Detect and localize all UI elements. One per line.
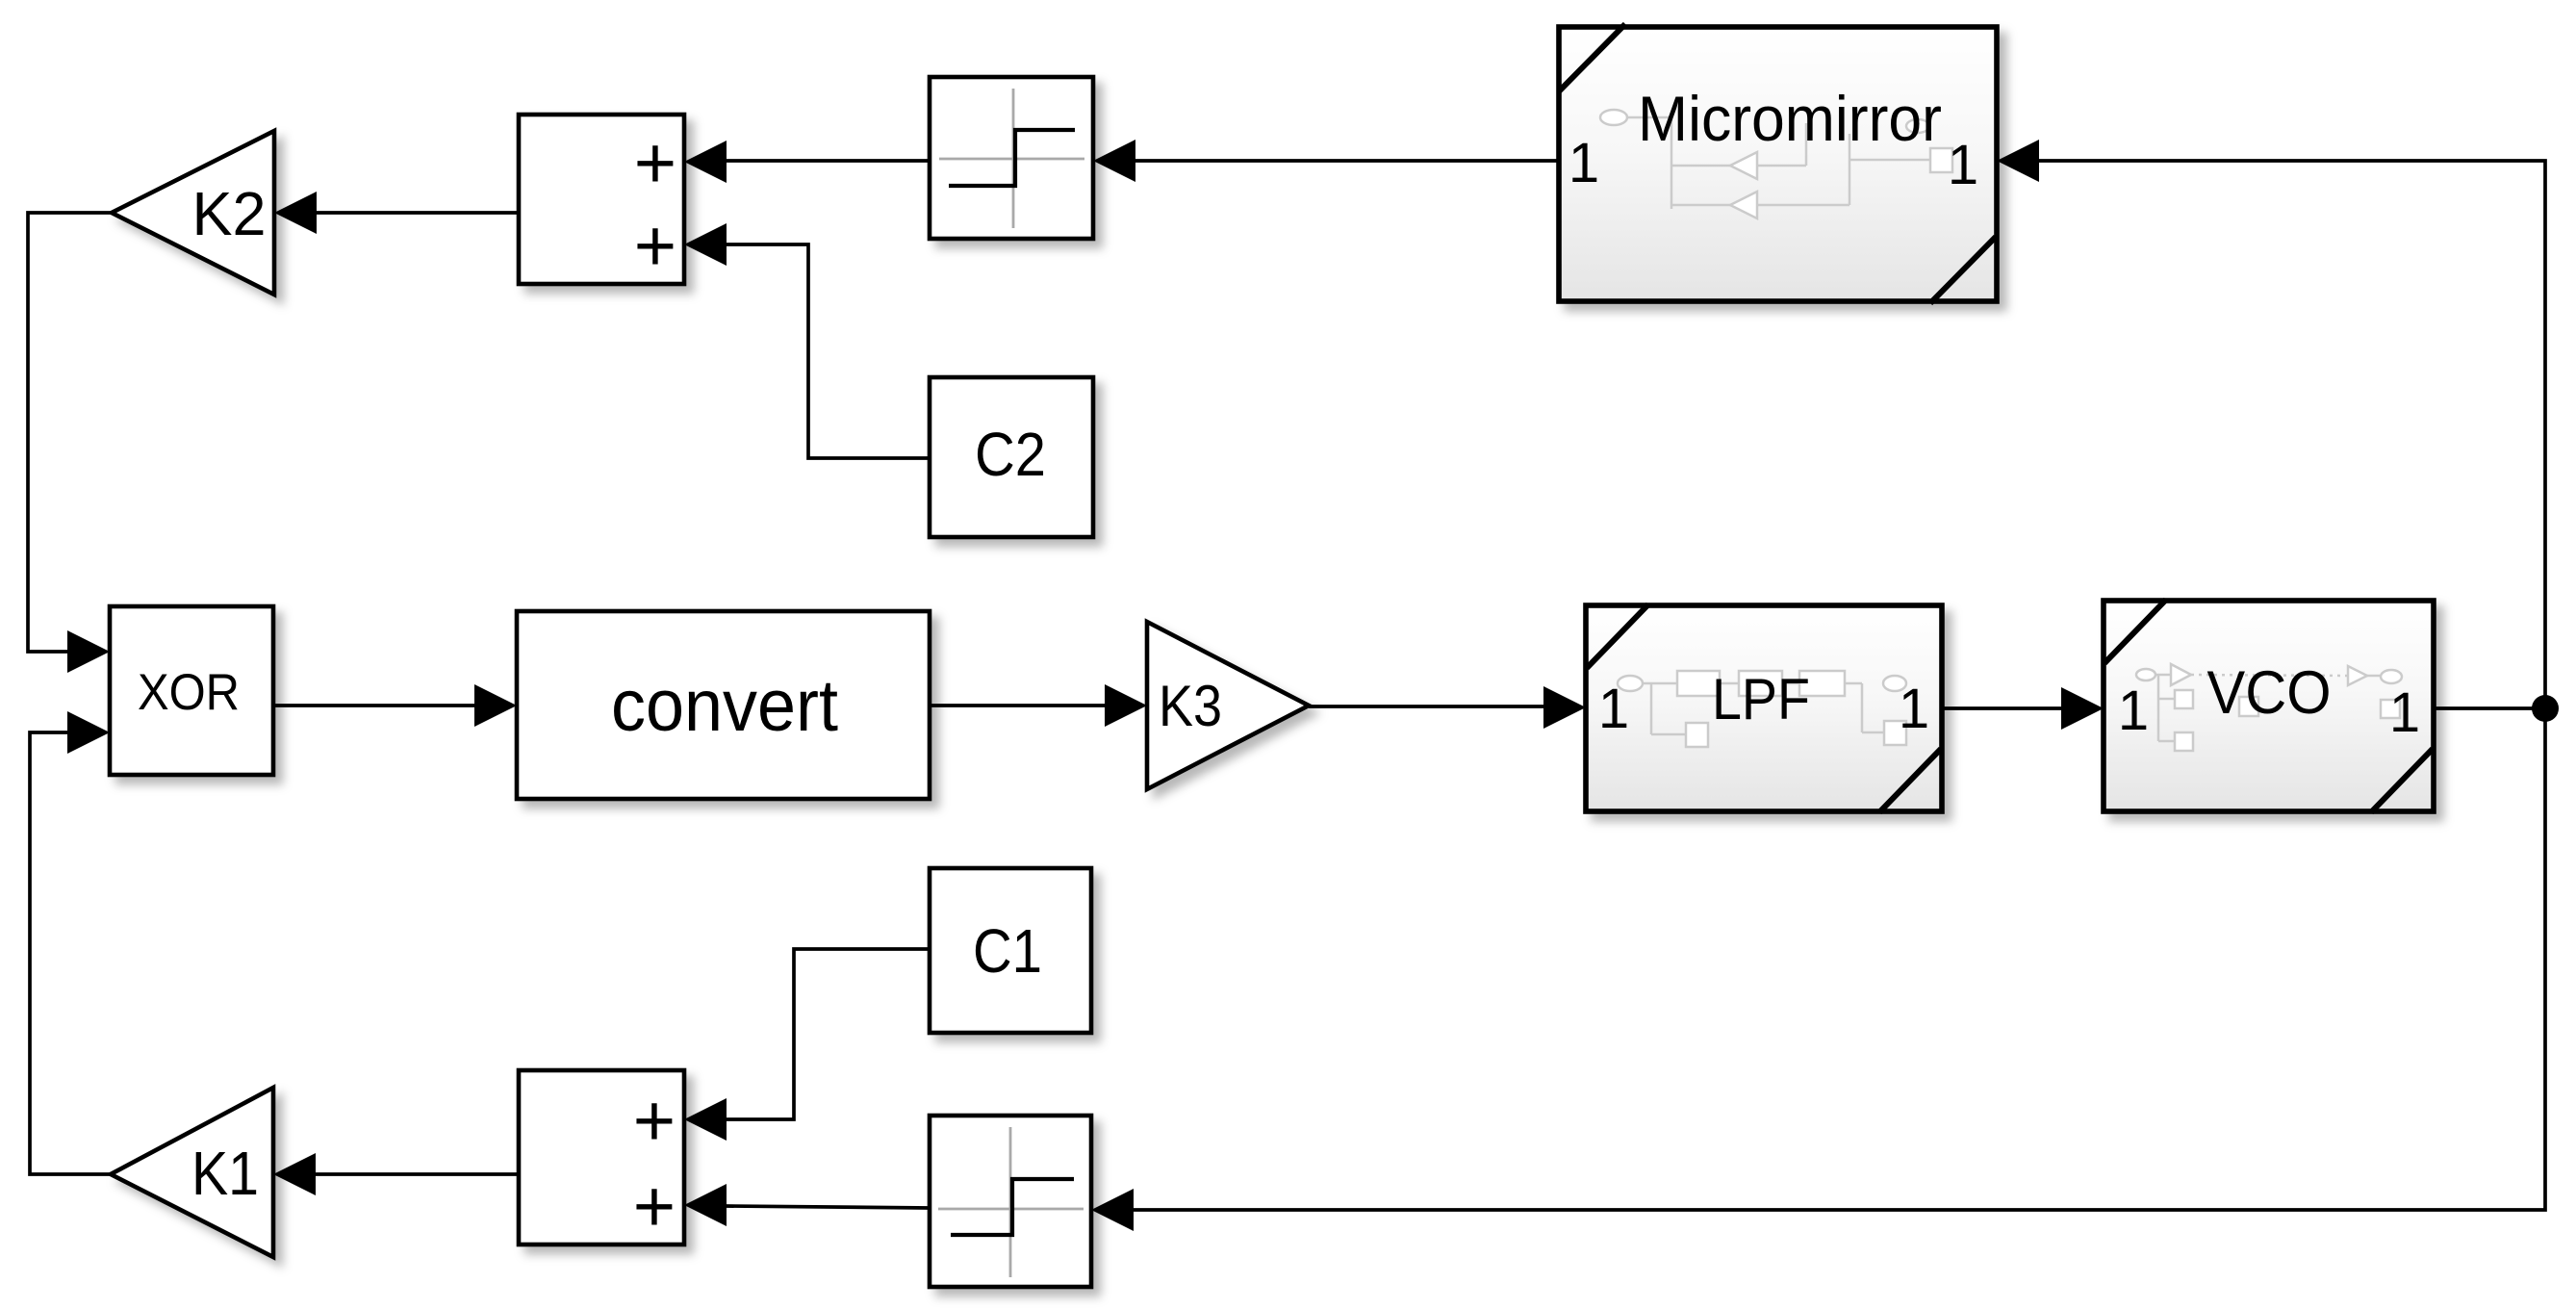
svg-text:+: + (634, 205, 676, 287)
arrowhead into XOR input 1 (67, 630, 110, 673)
Micromirror port 1 (input, right) (1948, 134, 1978, 196)
svg-text:K2: K2 (192, 179, 267, 248)
wire gain K1 to XOR input 2 (30, 732, 111, 1174)
wire gain K2 to XOR input 1 (28, 213, 112, 652)
subsystem LPF (1586, 604, 1942, 812)
arrowhead into gain K2 (274, 192, 317, 234)
svg-text:C2: C2 (975, 420, 1046, 489)
arrowhead into VCO (2061, 687, 2104, 730)
arrowhead into convert (474, 684, 517, 727)
wire convert to gain K3 (930, 704, 1107, 707)
VCO corner mark top-left (2104, 600, 2166, 663)
Micromirror corner mark top-left (1559, 24, 1625, 91)
wire gain K3 to LPF (1309, 705, 1544, 708)
wire C2 to Sum2 input 2 (725, 244, 930, 458)
sum block S2 (top) (519, 115, 684, 287)
wire C1 to Sum1 input 1 (725, 949, 930, 1119)
LPF corner mark top-left (1587, 604, 1648, 668)
gain K1 (111, 1088, 273, 1257)
LPF port 1 (input, left) (1598, 678, 1629, 740)
svg-text:1: 1 (1569, 132, 1599, 194)
arrowhead into Micromirror input (1997, 140, 2039, 182)
arrowhead into LPF (1543, 686, 1586, 729)
svg-text:1: 1 (1948, 134, 1978, 196)
svg-text:Micromirror: Micromirror (1638, 83, 1942, 154)
gain K2 (112, 131, 274, 295)
arrowhead into Sum2 input 1 (684, 141, 727, 183)
wire LPF to VCO (1942, 706, 2063, 710)
constant C1 (930, 868, 1091, 1033)
LPF port 1 (output, right) (1899, 678, 1929, 740)
wire node J down to Relay (bottom) (1132, 708, 2545, 1210)
LPF corner mark bottom-right (1879, 749, 1941, 812)
svg-text:1: 1 (1598, 678, 1629, 740)
svg-text:+: + (634, 122, 676, 204)
gain K3 (1147, 622, 1309, 789)
svg-text:1: 1 (2389, 681, 2420, 744)
arrowhead into Relay (bottom) (1091, 1189, 1134, 1231)
svg-text:K1: K1 (191, 1139, 259, 1208)
svg-text:K3: K3 (1159, 674, 1222, 738)
svg-text:C1: C1 (973, 916, 1042, 986)
junction node J (2532, 695, 2559, 722)
VCO port 1 (input, left) (2118, 680, 2149, 742)
wire Relay (bottom) to Sum1 input 2 (725, 1206, 930, 1208)
XOR block (110, 606, 273, 775)
svg-text:VCO: VCO (2207, 659, 2332, 727)
arrowhead into gain K1 (273, 1153, 316, 1195)
relay block (top) (930, 77, 1093, 239)
Micromirror corner mark bottom-right (1930, 237, 1996, 303)
svg-text:+: + (633, 1080, 676, 1162)
arrowhead into gain K3 (1105, 684, 1147, 727)
svg-text:LPF: LPF (1712, 667, 1810, 731)
wire Sum1 output to gain K1 (314, 1172, 519, 1176)
arrowhead into Sum1 input 1 (684, 1098, 727, 1141)
Micromirror port 1 (output, left) (1569, 132, 1599, 194)
arrowhead into XOR input 2 (67, 711, 110, 754)
svg-text:XOR: XOR (138, 664, 240, 721)
sum block S1 (bottom) (519, 1070, 684, 1247)
wire Sum2 output to gain K2 (315, 211, 519, 215)
wire VCO output to node J (2434, 706, 2545, 710)
constant C2 (930, 377, 1093, 537)
arrowhead into Relay (top) (1093, 140, 1135, 182)
arrowhead into Sum1 input 2 (684, 1184, 727, 1226)
wire XOR output to convert (273, 704, 476, 707)
svg-text:1: 1 (1899, 678, 1929, 740)
convert block (517, 611, 930, 799)
arrowhead into Sum2 input 2 (684, 223, 727, 266)
svg-text:+: + (633, 1166, 676, 1247)
wire Relay (top) to Sum2 input 1 (725, 159, 930, 163)
subsystem VCO (2104, 600, 2434, 812)
svg-text:1: 1 (2118, 680, 2149, 742)
VCO corner mark bottom-right (2371, 749, 2433, 812)
wire node J up to Micromirror input (2037, 161, 2545, 708)
wire Micromirror output to Relay (top) (1135, 159, 1559, 163)
subsystem Micromirror (1559, 24, 1997, 303)
svg-text:convert: convert (611, 665, 838, 747)
relay block (bottom) (930, 1116, 1091, 1287)
VCO port 1 (output, right) (2389, 681, 2420, 744)
